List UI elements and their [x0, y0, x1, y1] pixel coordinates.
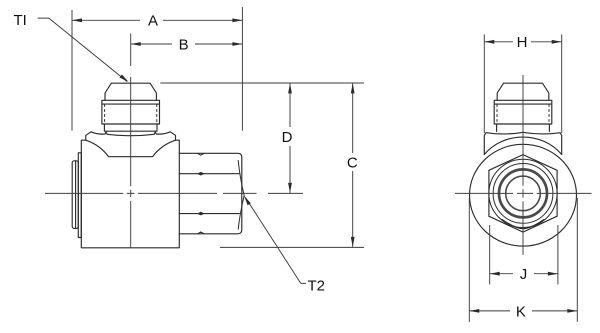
- svg-text:A: A: [148, 13, 158, 30]
- svg-text:J: J: [520, 266, 528, 283]
- svg-text:T2: T2: [308, 277, 326, 294]
- svg-text:C: C: [347, 154, 358, 171]
- svg-text:D: D: [282, 129, 293, 146]
- svg-text:TI: TI: [14, 12, 27, 29]
- svg-text:H: H: [517, 34, 528, 51]
- svg-text:K: K: [516, 303, 526, 320]
- svg-text:B: B: [179, 36, 189, 53]
